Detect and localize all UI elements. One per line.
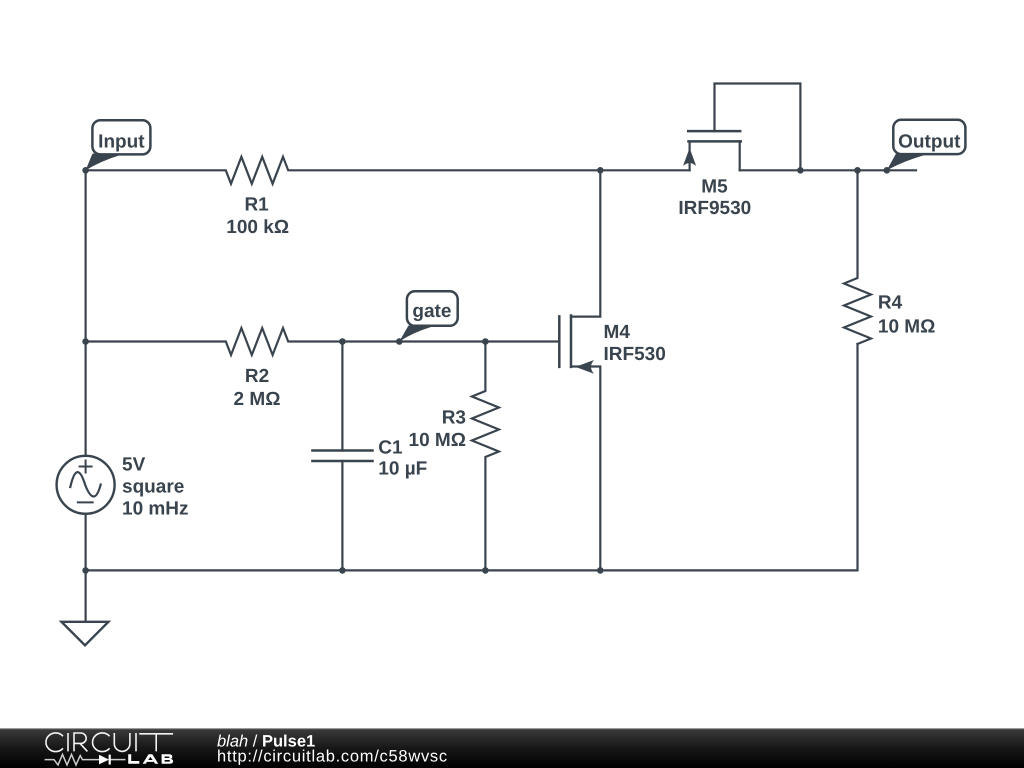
svg-text:10 MΩ: 10 MΩ <box>878 317 935 338</box>
svg-text:10 µF: 10 µF <box>378 459 427 480</box>
svg-text:R1: R1 <box>244 195 269 216</box>
svg-text:5V: 5V <box>122 455 146 476</box>
svg-text:C1: C1 <box>378 437 403 458</box>
svg-text:http://circuitlab.com/c58wvsc: http://circuitlab.com/c58wvsc <box>217 748 448 766</box>
svg-text:10 mHz: 10 mHz <box>122 499 189 520</box>
svg-text:100 kΩ: 100 kΩ <box>226 217 289 238</box>
svg-text:R2: R2 <box>245 366 269 387</box>
svg-text:Input: Input <box>98 131 145 152</box>
svg-text:square: square <box>122 477 184 498</box>
svg-text:M5: M5 <box>701 177 728 198</box>
svg-text:gate: gate <box>412 301 451 322</box>
svg-text:R3: R3 <box>442 408 466 429</box>
svg-text:Output: Output <box>898 132 961 153</box>
svg-text:R4: R4 <box>878 292 903 313</box>
svg-text:2 MΩ: 2 MΩ <box>234 389 281 410</box>
svg-text:IRF9530: IRF9530 <box>678 198 751 219</box>
svg-text:10 MΩ: 10 MΩ <box>409 430 466 451</box>
svg-text:IRF530: IRF530 <box>604 344 666 365</box>
svg-text:M4: M4 <box>604 322 631 343</box>
